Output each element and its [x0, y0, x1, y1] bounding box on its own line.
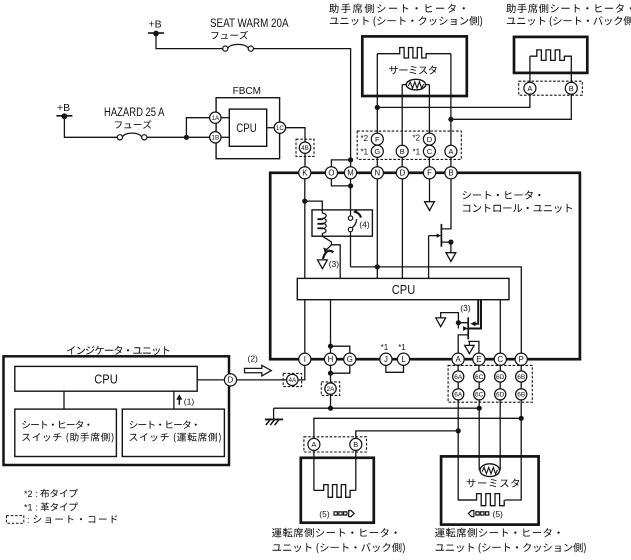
svg-text:HAZARD 25 A: HAZARD 25 A — [104, 107, 165, 119]
passenger back unit box — [514, 37, 587, 73]
seat heater switch (driver) box — [122, 409, 224, 456]
connector C (cushion) — [423, 145, 435, 157]
svg-text:1C: 1C — [276, 125, 285, 132]
wire +B to SEAT WARM fuse — [156, 34, 223, 49]
short-connector box F/G/B/D/C/A — [357, 131, 461, 159]
relay coil — [321, 210, 323, 213]
svg-text:A: A — [455, 355, 461, 364]
terminal J (bottom row) — [380, 353, 392, 365]
short-connector box 6A/6C/6D/6B — [448, 365, 532, 402]
svg-text:6B: 6B — [517, 374, 525, 381]
connector 6A (lower) — [453, 389, 464, 400]
arrow-up (1) — [178, 398, 180, 405]
passenger cushion unit box — [362, 36, 467, 96]
wire H to 2A — [330, 365, 332, 382]
svg-text:6B: 6B — [517, 392, 525, 399]
ground G1 — [273, 408, 275, 419]
connector B (driver back) — [350, 438, 362, 450]
wire I to CPU — [304, 300, 306, 354]
label indicator unit — [67, 346, 169, 355]
relay contact switch (4) — [350, 210, 352, 216]
junction dot below O-bracket — [348, 183, 353, 188]
svg-text:B: B — [448, 169, 453, 178]
wire 4A to indicator D — [237, 379, 287, 381]
wire bracket O-M upper — [331, 160, 350, 167]
connector 6C (upper) — [474, 371, 485, 382]
svg-text:(3): (3) — [460, 303, 471, 313]
wire back-unit A to 6B — [314, 418, 521, 438]
wire 6C down to thermistor — [478, 400, 480, 470]
terminal 1C — [274, 122, 285, 133]
svg-text:*1: *1 — [398, 343, 406, 352]
svg-text:6C: 6C — [475, 374, 484, 381]
terminal G (bottom row) — [344, 353, 356, 365]
CPU box (control unit) — [297, 278, 509, 299]
Q2 to terminal E — [468, 341, 479, 353]
svg-text:E: E — [476, 355, 481, 364]
svg-text:1A: 1A — [211, 115, 220, 122]
heater element (driver cushion) — [458, 494, 504, 506]
svg-text:B: B — [353, 440, 358, 449]
svg-text:(2): (2) — [248, 354, 259, 364]
wire CPU to Q2 source — [468, 300, 481, 329]
wire bracket H-G upper — [331, 346, 350, 353]
connector A (driver back) — [308, 438, 320, 450]
wire 6A down to cushion heater — [458, 400, 476, 500]
thermistor TH2 — [480, 464, 500, 477]
wire H to CPU — [330, 300, 332, 354]
wire G to terminal N — [376, 157, 378, 166]
junction dot 6B/back-A — [519, 416, 524, 421]
terminal 1B — [210, 132, 221, 143]
wire CPU to switch R — [173, 391, 175, 409]
svg-text:C: C — [427, 147, 433, 156]
wire K down to CPU — [304, 179, 306, 279]
label seat heater control unit — [463, 191, 541, 200]
label seat heater switch (driver) — [130, 420, 197, 428]
svg-text:+B: +B — [57, 102, 70, 114]
svg-text:*1: *1 — [24, 503, 33, 513]
seat heater switch (passenger) box — [15, 409, 117, 456]
legend short-code dashed box — [7, 516, 24, 524]
wire A lead into back heater — [313, 450, 315, 490]
heater element (driver back) — [314, 485, 356, 498]
label passenger seat heater unit (cushion) — [329, 4, 465, 14]
block arrow (2) — [245, 365, 272, 376]
terminal N (top row) — [371, 167, 383, 179]
svg-text:*1: *1 — [413, 148, 421, 157]
wire coil to switch(3) — [322, 233, 340, 278]
wire B to Q1 drain — [441, 179, 451, 229]
transistor Q2 channel bar — [467, 317, 469, 339]
svg-text:*2: *2 — [361, 134, 369, 143]
svg-text:F: F — [427, 169, 432, 178]
label seat heater switch (passenger) — [22, 420, 89, 428]
connector 6A (upper) — [453, 371, 464, 382]
svg-text:(3): (3) — [329, 259, 340, 269]
connector 6D (lower) — [495, 389, 506, 400]
svg-text:4B: 4B — [301, 145, 309, 152]
junction dot ground/6C — [477, 406, 482, 411]
terminal 1A — [210, 112, 221, 123]
Q2 to terminal A — [458, 335, 468, 353]
svg-text:1B: 1B — [211, 135, 219, 142]
terminal P (bottom row) — [515, 353, 527, 365]
svg-text:4A: 4A — [288, 377, 297, 384]
wire gate feed to Q2 — [441, 313, 469, 329]
label thermistor (passenger cushion) — [389, 66, 437, 75]
wire CPU to 1C — [267, 127, 275, 129]
transistor Q1 channel bar — [440, 224, 442, 247]
connector F — [371, 133, 383, 145]
fuse F1 SEAT WARM 20A — [223, 46, 228, 51]
svg-text::: : — [27, 515, 30, 525]
terminal B (top row) — [445, 167, 457, 179]
terminal A (bottom row) — [452, 353, 464, 365]
terminal F (top row) — [423, 167, 435, 179]
wire heater-right/A chain — [450, 54, 452, 146]
svg-text:P: P — [519, 355, 524, 364]
wire 6D upper-lower — [499, 382, 501, 389]
switch (3) blade — [324, 245, 331, 252]
svg-text:A: A — [527, 84, 532, 93]
svg-text::: : — [36, 489, 39, 499]
svg-text:N: N — [374, 169, 380, 178]
junction dot above O-bracket — [348, 157, 353, 162]
wire 6B down to cushion heater — [505, 400, 522, 500]
terminal M (top row) — [344, 167, 356, 179]
thermistor TH1 — [406, 79, 425, 90]
indicator unit box — [4, 356, 230, 465]
arrow-down below switch (3) — [318, 260, 328, 269]
wire switch(4) to bus — [350, 232, 352, 267]
passenger back connector dashed box — [519, 81, 583, 95]
Q1 source wire — [441, 242, 451, 252]
svg-text:D: D — [400, 169, 406, 178]
svg-text:J: J — [384, 355, 388, 364]
driver back unit box — [301, 458, 374, 523]
wire 1A to CPU — [220, 117, 229, 119]
wire A to 6A — [457, 365, 459, 371]
wire bracket H-G lower — [331, 365, 350, 373]
junction dot node to back-unit A — [375, 105, 380, 110]
connector G — [371, 145, 383, 157]
wire C to CPU — [499, 300, 501, 354]
svg-text:CPU: CPU — [94, 372, 118, 387]
terminal L (bottom row) — [397, 353, 409, 365]
svg-text:B: B — [569, 84, 574, 93]
wire back-unit B to 6A — [356, 431, 458, 438]
svg-text:L: L — [401, 355, 406, 364]
svg-text:K: K — [302, 169, 308, 178]
wire bus M/N/P — [351, 267, 522, 353]
svg-text:M: M — [347, 169, 354, 178]
svg-text:SEAT WARM 20A: SEAT WARM 20A — [210, 18, 289, 30]
relay RY box — [312, 210, 372, 236]
wire fuse F1 to node M — [253, 49, 350, 167]
wire C to terminal F — [428, 157, 430, 166]
wire M to relay contact — [350, 179, 352, 210]
svg-text:C: C — [497, 355, 503, 364]
connector 6B (lower) — [516, 389, 527, 400]
wire A to terminal B — [450, 157, 452, 166]
driver back connector dashed box — [304, 437, 367, 452]
svg-text:CPU: CPU — [392, 282, 416, 297]
arrow-down below F — [425, 202, 435, 211]
svg-text:G: G — [374, 147, 380, 156]
connector 6D (upper) — [495, 371, 506, 382]
heater element (passenger back) — [530, 50, 571, 82]
wire bracket O-M lower — [331, 179, 350, 186]
wire C to 6D — [499, 365, 501, 371]
wire indicator CPU to D — [197, 379, 224, 381]
heater element (passenger cushion) — [377, 48, 451, 59]
short-connector 4B dashed box — [296, 139, 314, 156]
svg-text:*2: *2 — [413, 134, 421, 143]
wire 1B to CPU — [220, 136, 229, 138]
svg-text:CPU: CPU — [236, 123, 257, 135]
svg-text:*1: *1 — [361, 148, 369, 157]
wire P to 6B — [520, 365, 522, 371]
FBCM internal CPU box — [229, 109, 266, 146]
switch (3) actuator arrow — [323, 251, 333, 259]
wire 6B upper-lower — [520, 382, 522, 389]
svg-text:D: D — [228, 376, 234, 385]
svg-text:(4): (4) — [359, 219, 370, 229]
wire B to terminal D — [401, 157, 403, 166]
svg-text:6D: 6D — [496, 374, 505, 381]
connector 6B (upper) — [516, 371, 527, 382]
Q1 gate wire — [429, 236, 438, 279]
svg-text:(5): (5) — [493, 509, 504, 519]
svg-text:*2: *2 — [24, 489, 33, 499]
thermistor TH1 leads — [402, 84, 429, 86]
connector A (passenger back) — [524, 82, 536, 94]
svg-text:6C: 6C — [475, 392, 484, 399]
short-connector 4A dashed box — [283, 373, 301, 386]
svg-text:FBCM: FBCM — [233, 86, 261, 97]
wire cross to back unit B — [451, 94, 571, 119]
svg-text:D: D — [427, 135, 433, 144]
svg-text:H: H — [328, 355, 334, 364]
terminal E (bottom row) — [473, 353, 485, 365]
wire +B to HAZARD fuse — [64, 116, 117, 137]
wire 6D down to thermistor — [499, 400, 501, 470]
label thermistor TH2 — [467, 479, 520, 488]
wire 2A to ground line — [330, 394, 332, 408]
wire F to arrow — [429, 179, 431, 202]
svg-text:(5): (5) — [319, 509, 330, 519]
label (5) with arrow (driver cushion) — [468, 511, 474, 517]
svg-text:2A: 2A — [327, 386, 336, 393]
label driver cushion unit — [435, 528, 560, 538]
wire branch to FBCM 1A — [186, 118, 209, 138]
arrow-down left of Q2 — [436, 318, 446, 327]
junction dot node to back-unit B — [448, 117, 453, 122]
wire fuse F2 to FBCM 1B — [147, 136, 210, 138]
svg-text:6D: 6D — [496, 392, 505, 399]
terminal O (top row) — [325, 167, 337, 179]
svg-text:(1): (1) — [184, 397, 195, 407]
wire branch to relay coil — [305, 201, 323, 210]
wire thermistor-right/D chain — [428, 85, 430, 134]
svg-text:A: A — [311, 440, 316, 449]
wire 6C upper-lower — [478, 382, 480, 389]
svg-text:6A: 6A — [454, 374, 463, 381]
svg-text:+B: +B — [149, 18, 162, 30]
driver cushion unit box — [441, 456, 538, 524]
indicator CPU box — [15, 366, 197, 391]
short-connector 2A dashed box — [321, 382, 339, 396]
wire thermistor-left/B chain — [401, 85, 403, 146]
ground line — [274, 407, 480, 409]
terminal C (bottom row) — [494, 353, 506, 365]
terminal I (bottom row) — [299, 353, 311, 365]
svg-text:O: O — [328, 169, 334, 178]
terminal H (bottom row) — [324, 353, 336, 365]
label passenger seat heater unit (back) — [506, 4, 631, 14]
fuse F2 HAZARD 25 A — [117, 135, 122, 140]
svg-text:B: B — [400, 147, 405, 156]
FBCM box — [216, 98, 280, 159]
wire N to CPU — [376, 179, 378, 279]
svg-text:G: G — [347, 355, 353, 364]
svg-text:A: A — [448, 147, 453, 156]
svg-text::: : — [36, 503, 39, 513]
svg-text:6A: 6A — [454, 392, 463, 399]
junction dot 6A/back-B — [456, 428, 461, 433]
arrow-down below Q1 — [446, 253, 456, 262]
terminal D (top row) — [396, 167, 408, 179]
connector D (cushion) — [423, 133, 435, 145]
connector 6C (lower) — [474, 389, 485, 400]
wire cross to back unit A — [377, 94, 530, 107]
wire 1C to short-connector 4B — [286, 128, 305, 142]
junction dot K/relay branch — [302, 199, 307, 204]
connector 4A — [287, 374, 298, 385]
wire heater-left/F chain — [376, 54, 378, 133]
wire D to CPU — [401, 179, 403, 279]
terminal K (top row) — [299, 167, 311, 179]
wire 4B to terminal K — [304, 153, 306, 166]
wire CPU signal arrow to Q2 — [475, 300, 478, 324]
wire B lead into back heater — [355, 450, 357, 490]
junction dot bus/N — [375, 264, 380, 269]
wire CPU to switch L — [63, 391, 65, 409]
svg-text:I: I — [304, 355, 306, 364]
connector 4B — [299, 142, 310, 153]
wire 6A upper-lower — [457, 382, 459, 389]
label driver back unit — [272, 528, 397, 538]
seat heater control unit box — [270, 173, 580, 359]
junction dot HAZARD branch — [184, 135, 189, 140]
wire E to 6C — [478, 365, 480, 371]
svg-text:*1: *1 — [381, 343, 389, 352]
wire bracket J-L — [386, 365, 404, 372]
svg-text:F: F — [375, 135, 380, 144]
wire I to 4A — [298, 365, 305, 380]
arrow-down below Q2 — [468, 341, 470, 345]
connector 2A — [325, 383, 336, 394]
connector B (passenger back) — [565, 82, 577, 94]
junction dot ground/H — [328, 406, 333, 411]
terminal D (indicator) — [224, 374, 236, 386]
connector A (cushion) — [445, 145, 457, 157]
connector B (cushion) — [396, 145, 408, 157]
